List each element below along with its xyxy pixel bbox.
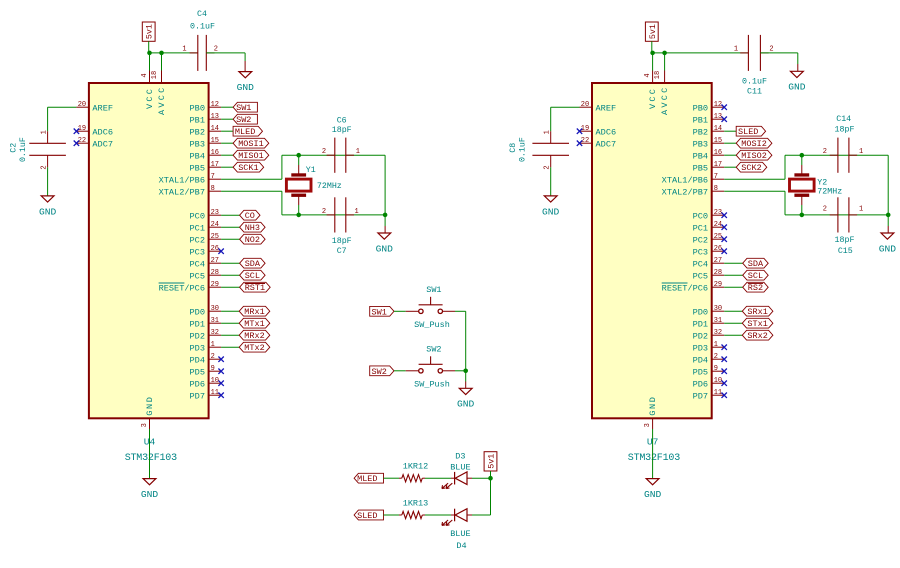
net label SCK1	[233, 162, 264, 172]
U7 pin 26 PC3	[712, 250, 725, 252]
svg-text:PB0: PB0	[693, 103, 708, 113]
svg-text:NO2: NO2	[245, 235, 260, 245]
svg-text:9: 9	[211, 365, 215, 373]
svg-text:PD7: PD7	[190, 391, 205, 401]
net label SW2 at switch	[370, 366, 394, 376]
junction right leg U7	[886, 213, 891, 218]
svg-text:12: 12	[211, 101, 219, 109]
net label SW1 at switch	[370, 306, 394, 316]
svg-text:PC5: PC5	[190, 271, 205, 281]
wire U7 PB4 to label	[724, 154, 736, 156]
wire SW1 to GND rail	[442, 310, 455, 312]
svg-text:RESET/PC6: RESET/PC6	[662, 283, 708, 293]
wire U4 PB1 to label	[221, 118, 233, 120]
net label RS2	[743, 282, 769, 292]
svg-text:PB2: PB2	[190, 127, 205, 137]
U7 pin 20 AREF	[580, 106, 593, 108]
svg-text:D3: D3	[455, 451, 465, 461]
U7 pin 4 VCC	[652, 71, 654, 84]
svg-text:XTAL1/PB6: XTAL1/PB6	[662, 175, 708, 185]
U7 pin 12 PB0	[712, 106, 725, 108]
U7 no-connect PC1	[722, 225, 727, 230]
U4 no-connect PD5	[218, 369, 223, 374]
net label SDA	[743, 258, 769, 268]
svg-text:25: 25	[211, 233, 219, 241]
svg-text:11: 11	[211, 389, 219, 397]
U7 pin 14 PB2	[712, 130, 725, 132]
svg-text:0.1uF: 0.1uF	[519, 137, 528, 162]
svg-text:XTAL2/PB7: XTAL2/PB7	[662, 187, 708, 197]
wire VCC pin	[149, 53, 151, 71]
U7 pin 22 ADC7 (no connect)	[580, 142, 593, 144]
wire C2 to GND	[47, 167, 49, 196]
svg-text:RESET/PC6: RESET/PC6	[159, 283, 205, 293]
svg-text:30: 30	[211, 305, 219, 313]
svg-text:STM32F103: STM32F103	[628, 453, 680, 464]
junction crystal top right	[800, 153, 805, 158]
svg-text:28: 28	[211, 269, 219, 277]
svg-text:10: 10	[714, 377, 722, 385]
svg-text:18: 18	[654, 71, 662, 79]
ground below U7	[646, 479, 659, 485]
wire SW2 to GND	[442, 370, 455, 372]
wire 5v1 to VCC rail	[148, 41, 150, 53]
U7 no-connect PD5	[722, 369, 727, 374]
svg-text:1: 1	[40, 130, 48, 134]
U4 pin 22 ADC7 (no connect)	[76, 142, 89, 144]
svg-text:32: 32	[211, 329, 219, 337]
svg-text:2: 2	[823, 148, 827, 156]
wire U7 PB5 to label	[724, 166, 736, 168]
svg-text:Y1: Y1	[306, 166, 316, 175]
wire U4 PC5 to label	[221, 274, 240, 276]
net label SLED at resistor	[354, 510, 383, 520]
U4 pin 30 PD0	[209, 310, 222, 312]
U7 pin 9 PD5	[712, 370, 725, 372]
svg-text:25: 25	[714, 233, 722, 241]
net label STx1	[742, 318, 773, 328]
svg-text:GND: GND	[145, 396, 155, 416]
crystal Y2 pins	[801, 155, 803, 165]
net label SLED	[736, 126, 765, 136]
U7 pin 17 PB5	[712, 166, 725, 168]
junction crystal bottom right	[800, 213, 805, 218]
U7 no-connect PC2	[722, 237, 727, 242]
wire SW1 label to switch	[394, 310, 406, 312]
wire U4 PD0 to label	[221, 310, 239, 312]
net label SCL	[240, 270, 266, 280]
svg-text:AVCC: AVCC	[157, 86, 167, 115]
svg-text:30: 30	[714, 305, 722, 313]
svg-text:SDA: SDA	[245, 259, 261, 269]
wire U7 PC6 to label	[724, 286, 743, 288]
U4 pin 14 PB2	[209, 130, 222, 132]
wire 5v1 to junction	[490, 471, 492, 478]
svg-text:7: 7	[211, 173, 215, 181]
net label SRx2	[742, 330, 773, 340]
U7 pin 16 PB4	[712, 154, 725, 156]
U7 pin 3 GND	[652, 418, 654, 429]
switch SW2	[419, 369, 423, 373]
svg-text:4: 4	[644, 73, 652, 77]
junction AVCC	[159, 51, 164, 56]
U7 pin 27 PC4	[712, 262, 725, 264]
U7 no-connect PC3	[722, 249, 727, 254]
U4 pin 19 ADC6 (no connect)	[76, 130, 89, 132]
U7 pin 1 PD3	[712, 346, 725, 348]
wire U4 PD2 to label	[221, 334, 239, 336]
svg-text:5v1: 5v1	[146, 24, 155, 39]
svg-text:PC1: PC1	[190, 223, 205, 233]
svg-text:GND: GND	[457, 399, 475, 410]
wire U4 PB4 to label	[221, 154, 233, 156]
U4 pin 29 RESET/PC6	[209, 286, 222, 288]
U4 no-connect PC3	[218, 249, 223, 254]
svg-text:1: 1	[714, 341, 718, 349]
svg-text:MRx1: MRx1	[244, 307, 264, 317]
capacitor C14	[837, 138, 839, 173]
svg-text:GND: GND	[376, 243, 394, 254]
svg-text:ADC6: ADC6	[596, 127, 617, 137]
svg-text:24: 24	[211, 221, 219, 229]
IC U4 STM32F103 body	[89, 83, 209, 418]
svg-text:SW2: SW2	[236, 115, 251, 125]
svg-text:31: 31	[211, 317, 219, 325]
svg-text:5v1: 5v1	[649, 24, 658, 39]
svg-text:C11: C11	[747, 87, 762, 96]
svg-text:PB1: PB1	[693, 115, 708, 125]
U7 pin 10 PD6	[712, 382, 725, 384]
U4 pin 16 PB4	[209, 154, 222, 156]
svg-text:C2: C2	[10, 143, 19, 153]
U4 pin 31 PD1	[209, 322, 222, 324]
U7 no-connect PD7	[722, 393, 727, 398]
svg-text:RST1: RST1	[245, 283, 265, 293]
svg-text:PC3: PC3	[190, 247, 205, 257]
U4 pin 15 PB3	[209, 142, 222, 144]
svg-text:2: 2	[322, 148, 326, 156]
svg-text:72MHz: 72MHz	[317, 182, 342, 191]
svg-text:72MHz: 72MHz	[817, 188, 842, 197]
power flag 5v1 right	[645, 22, 658, 41]
svg-text:20: 20	[78, 101, 86, 109]
svg-text:SCL: SCL	[245, 271, 260, 281]
U4 pin 1 PD3	[209, 346, 222, 348]
svg-text:PC4: PC4	[190, 259, 205, 269]
svg-text:AREF: AREF	[596, 103, 617, 113]
junction VCC right	[650, 51, 655, 56]
svg-text:SW1: SW1	[236, 103, 251, 113]
U4 pin 8 XTAL2/PB7	[209, 190, 222, 192]
U4 pin 2 PD4	[209, 358, 222, 360]
svg-text:16: 16	[211, 149, 219, 157]
svg-text:13: 13	[714, 113, 722, 121]
wire U7 PD2 to label	[724, 334, 742, 336]
svg-text:29: 29	[714, 281, 722, 289]
svg-text:PD5: PD5	[693, 367, 708, 377]
svg-text:BLUE: BLUE	[450, 463, 470, 473]
U7 pin 18 AVCC	[664, 71, 666, 84]
svg-text:NH3: NH3	[245, 223, 260, 233]
svg-text:26: 26	[211, 245, 219, 253]
U4 pin 28 PC5	[209, 274, 222, 276]
capacitor C4	[197, 35, 199, 71]
svg-text:SDA: SDA	[748, 259, 764, 269]
svg-text:SW_Push: SW_Push	[414, 320, 450, 330]
wire to GND crystal right	[887, 215, 889, 226]
svg-text:AVCC: AVCC	[660, 86, 670, 115]
wire XTAL1 U4	[221, 178, 282, 180]
U4 pin 25 PC2	[209, 238, 222, 240]
junction crystal top left	[296, 153, 301, 158]
U4 pin 17 PB5	[209, 166, 222, 168]
svg-text:PB4: PB4	[693, 151, 708, 161]
svg-text:PB2: PB2	[693, 127, 708, 137]
U4 pin 12 PB0	[209, 106, 222, 108]
net label SDA	[240, 258, 266, 268]
U7 pin 24 PC1	[712, 226, 725, 228]
svg-text:14: 14	[211, 125, 219, 133]
svg-text:PB5: PB5	[190, 163, 205, 173]
svg-text:20: 20	[581, 101, 589, 109]
U4 pin 10 PD6	[209, 382, 222, 384]
svg-text:SW2: SW2	[372, 367, 387, 377]
U7 pin 28 PC5	[712, 274, 725, 276]
svg-text:18: 18	[151, 71, 159, 79]
crystal Y1 pins	[298, 155, 300, 165]
svg-text:PD3: PD3	[693, 343, 708, 353]
svg-text:18pF: 18pF	[835, 126, 855, 135]
ground below C4	[239, 72, 252, 78]
crystal Y2	[794, 173, 809, 176]
ground below U4	[143, 479, 156, 485]
svg-text:PD1: PD1	[190, 319, 205, 329]
U4 pin 32 PD2	[209, 334, 222, 336]
U4 no-connect PD6	[218, 381, 223, 386]
svg-text:C14: C14	[836, 115, 851, 124]
svg-text:BLUE: BLUE	[450, 529, 470, 539]
capacitor C15	[837, 197, 839, 232]
U4 no-connect PD7	[218, 393, 223, 398]
wire U7 PB3 to label	[724, 142, 736, 144]
svg-text:MTx1: MTx1	[244, 319, 264, 329]
svg-text:0.1uF: 0.1uF	[19, 137, 28, 162]
svg-text:13: 13	[211, 113, 219, 121]
svg-text:STx1: STx1	[747, 319, 767, 329]
wire VCC pin right	[652, 53, 654, 71]
svg-text:17: 17	[714, 161, 722, 169]
svg-text:GND: GND	[644, 489, 662, 500]
svg-text:5v1: 5v1	[487, 454, 496, 469]
ground below switches	[459, 388, 472, 394]
wire down to ground	[465, 371, 467, 382]
wire AREF U4 to C2	[48, 106, 77, 108]
svg-text:9: 9	[714, 365, 718, 373]
svg-text:1KR13: 1KR13	[403, 499, 429, 509]
svg-text:C6: C6	[337, 117, 347, 126]
svg-text:PD4: PD4	[693, 355, 708, 365]
U7 pin 8 XTAL2/PB7	[712, 190, 725, 192]
svg-text:7: 7	[714, 173, 718, 181]
svg-text:1: 1	[356, 148, 360, 156]
svg-text:14: 14	[714, 125, 722, 133]
svg-text:PD6: PD6	[190, 379, 205, 389]
net label NH3	[240, 222, 266, 232]
U7 pin 13 PB1	[712, 118, 725, 120]
wire XTAL2 U4	[221, 190, 282, 192]
wire U7 PB2 to label	[724, 130, 736, 132]
svg-text:C8: C8	[509, 143, 518, 153]
U4 pin 23 PC0	[209, 214, 222, 216]
resistor R13 1K	[402, 511, 423, 518]
U7 pin 29 RESET/PC6	[712, 286, 725, 288]
switch SW1	[419, 309, 423, 313]
U7 pin 23 PC0	[712, 214, 725, 216]
wire U4 PC2 to label	[221, 238, 240, 240]
U7 no-connect PD4	[722, 357, 727, 362]
svg-text:SW1: SW1	[372, 307, 387, 317]
U7 no-connect PD3	[722, 345, 727, 350]
wire to GND crystal left	[384, 215, 386, 226]
svg-text:MLED: MLED	[235, 127, 255, 137]
svg-text:PC4: PC4	[693, 259, 708, 269]
svg-text:2: 2	[714, 353, 718, 361]
net label MTx2	[239, 342, 270, 352]
svg-text:GND: GND	[648, 396, 658, 416]
svg-text:Y2: Y2	[817, 178, 827, 187]
svg-text:MOSI1: MOSI1	[238, 139, 264, 149]
svg-text:SCK1: SCK1	[238, 163, 258, 173]
wire U4 PB0 to label	[221, 106, 233, 108]
net label MTx1	[239, 318, 270, 328]
svg-text:PD5: PD5	[190, 367, 205, 377]
svg-text:24: 24	[714, 221, 722, 229]
svg-text:17: 17	[211, 161, 219, 169]
wire U4 PB5 to label	[221, 166, 233, 168]
wire U7 GND pin down	[652, 429, 654, 479]
ground below C15	[881, 233, 894, 239]
svg-text:PC0: PC0	[190, 211, 205, 221]
wire U4 GND pin down	[149, 429, 151, 479]
power flag 5v1 left	[142, 22, 155, 41]
svg-text:3: 3	[141, 423, 149, 427]
svg-text:11: 11	[714, 389, 722, 397]
svg-text:GND: GND	[141, 489, 159, 500]
svg-text:27: 27	[211, 257, 219, 265]
IC U7 STM32F103 body	[592, 83, 712, 418]
svg-text:GND: GND	[879, 243, 897, 254]
wire U7 PC4 to label	[724, 262, 743, 264]
junction AVCC right	[662, 51, 667, 56]
wire junction down to D4	[490, 478, 492, 515]
net label MRx1	[239, 306, 270, 316]
U7 pin 11 PD7	[712, 394, 725, 396]
svg-text:SCK2: SCK2	[741, 163, 761, 173]
net label MOSI1	[233, 138, 269, 148]
wire U4 PD3 to label	[221, 346, 239, 348]
svg-text:VCC: VCC	[145, 87, 155, 109]
U4 pin 20 AREF	[76, 106, 89, 108]
svg-text:CO: CO	[245, 211, 255, 221]
svg-text:1: 1	[211, 341, 215, 349]
net label CO	[240, 210, 260, 220]
svg-text:4: 4	[141, 73, 149, 77]
svg-text:PC2: PC2	[190, 235, 205, 245]
svg-text:ADC6: ADC6	[92, 127, 113, 137]
wire AVCC pin right	[664, 53, 666, 71]
wire C4 to GND	[206, 52, 245, 54]
ground below C7	[378, 233, 391, 239]
net label RST1	[240, 282, 271, 292]
wire C11 to GND	[760, 52, 797, 54]
svg-text:PC1: PC1	[693, 223, 708, 233]
svg-text:MOSI2: MOSI2	[741, 139, 767, 149]
svg-text:ADC7: ADC7	[596, 139, 617, 149]
svg-text:1: 1	[544, 130, 552, 134]
U7 pin 15 PB3	[712, 142, 725, 144]
svg-text:PB5: PB5	[693, 163, 708, 173]
svg-text:PB4: PB4	[190, 151, 205, 161]
svg-text:0.1uF: 0.1uF	[190, 23, 215, 32]
svg-text:3: 3	[644, 423, 652, 427]
svg-text:PB1: PB1	[190, 115, 205, 125]
svg-text:15: 15	[714, 137, 722, 145]
svg-text:MRx2: MRx2	[244, 331, 264, 341]
net label SW1	[233, 102, 257, 112]
wire U7 PD1 to label	[724, 322, 742, 324]
capacitor C2	[47, 131, 49, 143]
capacitor C8	[550, 131, 552, 143]
wire AREF U7 to C8	[551, 106, 580, 108]
svg-text:SCL: SCL	[748, 271, 763, 281]
wire U7 PC5 to label	[724, 274, 743, 276]
U7 pin 30 PD0	[712, 310, 725, 312]
net label MISO1	[233, 150, 269, 160]
U7 no-connect PB0	[722, 105, 727, 110]
svg-text:18pF: 18pF	[332, 237, 352, 246]
svg-text:PC5: PC5	[693, 271, 708, 281]
U4 no-connect PD4	[218, 357, 223, 362]
junction switches	[463, 369, 468, 374]
svg-text:PB3: PB3	[190, 139, 205, 149]
svg-text:D4: D4	[456, 541, 466, 551]
svg-text:1: 1	[734, 46, 738, 54]
wire D3 to 5v1	[467, 477, 472, 479]
wire 5v1 to VCC rail right	[651, 41, 653, 53]
net label SCK2	[736, 162, 767, 172]
svg-text:PD0: PD0	[190, 307, 205, 317]
U7 pin 31 PD1	[712, 322, 725, 324]
svg-text:PD3: PD3	[190, 343, 205, 353]
wire crystal right leg	[384, 155, 386, 215]
wire C8 to GND	[550, 167, 552, 196]
U4 pin 11 PD7	[209, 394, 222, 396]
wire U7 PD0 to label	[724, 310, 742, 312]
U7 pin 19 ADC6 (no connect)	[580, 130, 593, 132]
wire MLED to R12	[384, 477, 400, 479]
svg-text:23: 23	[714, 209, 722, 217]
wire U4 PB3 to label	[221, 142, 233, 144]
resistor R12 1K	[402, 475, 423, 482]
ground below C2	[41, 196, 54, 202]
svg-text:VCC: VCC	[648, 87, 658, 109]
ground below C8	[544, 196, 557, 202]
U4 pin 18 AVCC	[161, 71, 163, 84]
wire U4 PB2 to label	[221, 130, 233, 132]
svg-text:2: 2	[322, 208, 326, 216]
U4 pin 4 VCC	[149, 71, 151, 84]
svg-text:PD1: PD1	[693, 319, 708, 329]
